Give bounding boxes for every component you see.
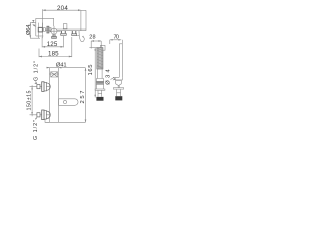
svg-text:G 1/2″: G 1/2″ [34,61,40,81]
svg-text:28: 28 [89,35,95,41]
svg-text:70: 70 [114,34,119,40]
svg-text:185: 185 [48,51,59,58]
svg-text:Ø34: Ø34 [106,69,112,85]
svg-text:Ø64: Ø64 [26,24,32,35]
svg-text:G 1/2″: G 1/2″ [33,120,39,140]
svg-text:150±15: 150±15 [27,91,33,111]
svg-text:125: 125 [47,41,58,48]
svg-text:165: 165 [88,65,94,76]
svg-text:Ø41: Ø41 [56,62,67,68]
svg-text:7: 7 [32,19,35,24]
svg-text:257: 257 [80,91,86,104]
svg-text:204: 204 [57,5,68,12]
